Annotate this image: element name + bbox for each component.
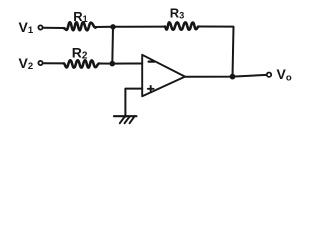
wire: op-amp non-inverting input to ground: [125, 89, 142, 117]
input terminal V2: [38, 61, 42, 65]
junction node A (summing node, top): [110, 24, 115, 29]
pin label minus (inverting input): [149, 60, 155, 62]
junction: output / feedback node: [230, 74, 236, 80]
wire: R2 to node B: [99, 63, 112, 65]
wire: vertical from node A down to node B: [111, 27, 114, 64]
label R3: [170, 6, 184, 21]
ground: [114, 116, 136, 123]
wire: node A to R3: [113, 26, 165, 28]
label V2: [19, 55, 34, 72]
label V1: [19, 19, 34, 36]
wire: V2 terminal to R2: [43, 62, 64, 64]
label R1: [73, 9, 87, 24]
wire: op-amp output to Vo terminal: [185, 75, 267, 77]
resistor R1: [64, 22, 96, 30]
label R2: [72, 44, 88, 61]
wire: node B to op-amp inverting input: [112, 63, 142, 65]
wire: V1 terminal to R1: [43, 27, 64, 29]
output terminal Vo: [267, 73, 271, 77]
pin label plus (non-inverting input): [148, 86, 154, 92]
op-amp U1: [142, 55, 185, 96]
junction node B (inverting input node): [110, 61, 116, 67]
resistor R3: [165, 22, 199, 29]
input terminal V1: [38, 25, 42, 29]
wire: R3 to feedback corner, down to output node: [199, 27, 234, 77]
resistor R2: [64, 60, 99, 67]
wire: R1 to node A: [96, 26, 114, 28]
label Vo: [277, 66, 292, 84]
